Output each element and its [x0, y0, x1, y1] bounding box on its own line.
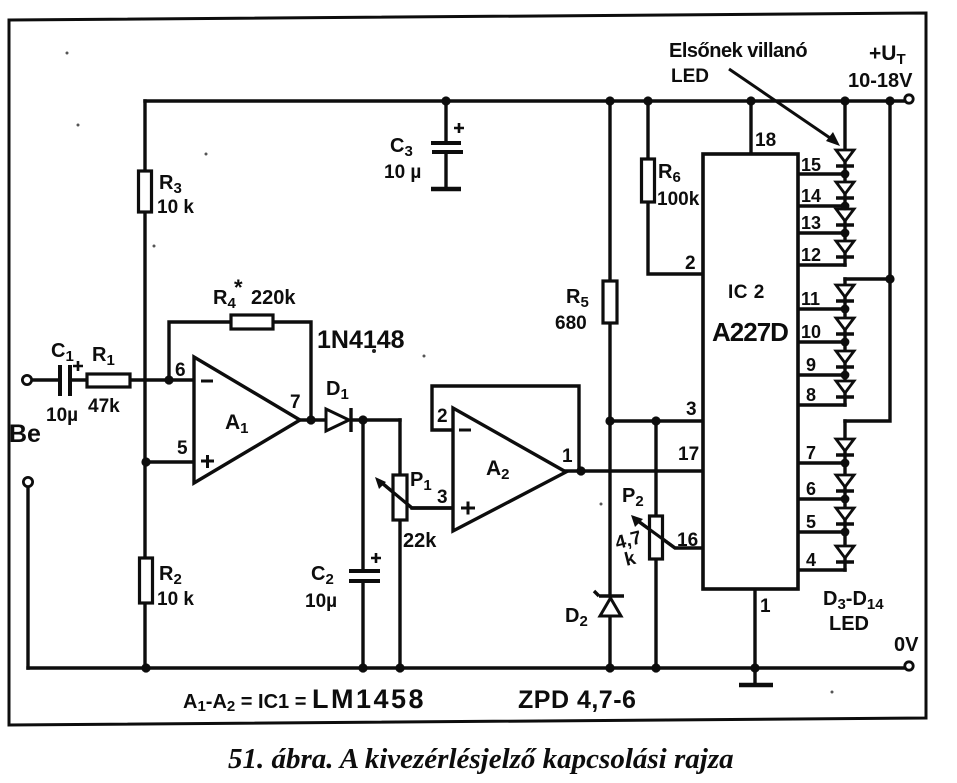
svg-text:D3-D14: D3-D14 [823, 588, 884, 613]
svg-text:C1: C1 [51, 340, 74, 365]
svg-text:+UT: +UT [869, 42, 906, 68]
svg-text:8: 8 [806, 385, 816, 405]
svg-text:P2: P2 [622, 485, 644, 510]
svg-text:7: 7 [290, 392, 301, 413]
svg-text:4: 4 [806, 550, 816, 570]
svg-text:3: 3 [686, 399, 697, 420]
svg-text:D1: D1 [326, 378, 349, 403]
svg-text:9: 9 [806, 355, 816, 375]
svg-text:A227D: A227D [712, 317, 788, 347]
svg-text:47k: 47k [88, 396, 120, 417]
svg-text:*: * [234, 275, 243, 300]
svg-text:R6: R6 [658, 161, 681, 186]
svg-text:C3: C3 [390, 135, 413, 160]
svg-text:P1: P1 [410, 469, 432, 494]
svg-text:2: 2 [437, 406, 448, 427]
svg-text:C2: C2 [311, 563, 334, 588]
svg-text:7: 7 [806, 443, 816, 463]
svg-text:16: 16 [677, 530, 698, 551]
svg-text:10µ: 10µ [46, 405, 78, 426]
svg-text:Elsőnek villanó: Elsőnek villanó [669, 40, 807, 62]
svg-text:10 µ: 10 µ [384, 162, 421, 183]
svg-text:5: 5 [806, 512, 816, 532]
svg-text:1: 1 [562, 446, 573, 467]
svg-text:12: 12 [801, 245, 821, 265]
svg-text:13: 13 [801, 213, 821, 233]
svg-text:10-18V: 10-18V [848, 70, 913, 92]
svg-text:R2: R2 [159, 563, 182, 588]
svg-text:A1-A2 = IC1 = LM1458: A1-A2 = IC1 = LM1458 [183, 684, 426, 715]
svg-text:5: 5 [177, 438, 188, 459]
svg-text:0V: 0V [894, 634, 919, 656]
svg-text:R5: R5 [566, 286, 589, 311]
svg-text:IC 2: IC 2 [728, 282, 765, 303]
svg-text:220k: 220k [251, 287, 296, 309]
svg-text:R1: R1 [92, 344, 115, 369]
svg-text:ZPD 4,7-6: ZPD 4,7-6 [518, 686, 636, 714]
svg-text:22k: 22k [403, 530, 437, 552]
svg-text:1: 1 [760, 596, 771, 617]
svg-text:3: 3 [437, 487, 448, 508]
svg-text:R4: R4 [213, 287, 236, 312]
svg-text:10 k: 10 k [157, 197, 194, 218]
svg-text:11: 11 [801, 289, 820, 309]
svg-text:k: k [622, 548, 638, 571]
svg-text:14: 14 [801, 186, 821, 206]
svg-text:1N4148: 1N4148 [317, 326, 405, 354]
svg-text:LED: LED [671, 66, 709, 87]
svg-text:10 k: 10 k [157, 589, 194, 610]
svg-text:10: 10 [801, 322, 821, 342]
svg-text:D2: D2 [565, 605, 588, 630]
svg-text:Be: Be [9, 420, 41, 448]
svg-text:18: 18 [755, 130, 776, 151]
svg-text:LED: LED [829, 613, 869, 635]
svg-text:6: 6 [175, 360, 186, 381]
svg-text:6: 6 [806, 479, 816, 499]
svg-text:R3: R3 [159, 172, 182, 197]
svg-text:680: 680 [555, 313, 587, 334]
svg-text:17: 17 [678, 444, 699, 465]
svg-text:51. ábra. A kivezérlésjelző ka: 51. ábra. A kivezérlésjelző kapcsolási r… [228, 743, 734, 775]
svg-text:10µ: 10µ [305, 591, 337, 612]
svg-text:2: 2 [685, 253, 696, 274]
svg-text:15: 15 [801, 155, 821, 175]
svg-text:100k: 100k [657, 189, 700, 210]
